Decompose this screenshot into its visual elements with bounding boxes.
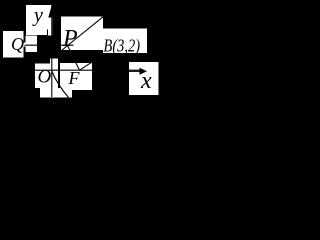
x-axis arrow in x box <box>129 70 140 72</box>
F label box <box>60 63 92 90</box>
y label box <box>26 5 52 30</box>
segment QP <box>25 44 74 46</box>
svg-text:F: F <box>68 68 81 88</box>
svg-text:Q: Q <box>11 34 24 54</box>
line PB <box>61 16 104 51</box>
gap between O and F boxes <box>58 62 60 77</box>
x label box <box>129 62 159 95</box>
y-axis lower white strip <box>50 59 58 65</box>
node Q notch <box>22 43 26 47</box>
svg-text:O: O <box>38 67 52 88</box>
O label box <box>35 64 58 89</box>
line FB <box>80 31 141 70</box>
Q label box <box>3 31 24 58</box>
svg-text:B(3,2): B(3,2) <box>104 36 141 57</box>
B label box <box>103 29 147 54</box>
parabola arc <box>52 71 69 98</box>
svg-text:P: P <box>62 26 78 52</box>
segment PF <box>68 46 80 71</box>
P label box <box>61 17 103 51</box>
y-axis upper white strip <box>48 18 53 36</box>
y-axis <box>51 5 53 97</box>
svg-text:x: x <box>140 68 152 94</box>
x-axis <box>35 69 140 71</box>
y-axis arrowhead wedge <box>48 5 52 18</box>
segment QP white strip <box>26 36 38 53</box>
parabola white patch below O <box>40 88 72 98</box>
svg-text:y: y <box>32 5 43 27</box>
